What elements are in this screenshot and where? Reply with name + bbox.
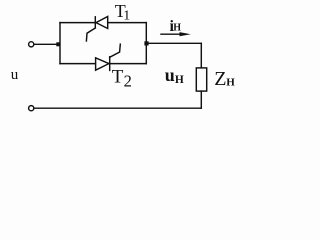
wire right vertical of pair [145, 23, 147, 64]
terminal (top input) [29, 42, 34, 47]
svg-text:ZH: ZH [214, 68, 235, 90]
label Z_H [214, 68, 235, 90]
thyristor T2 [96, 44, 121, 70]
wire right vertical to load [200, 43, 202, 68]
wire bottom rail [34, 107, 201, 109]
terminal (bottom input) [29, 106, 34, 111]
wire bottom branch left [60, 63, 96, 65]
impedance Z_H [196, 68, 206, 91]
label T2 [112, 67, 132, 91]
label i_H [170, 18, 182, 35]
node left junction [56, 42, 60, 46]
svg-text:u: u [11, 67, 19, 83]
svg-text:T1: T1 [115, 1, 130, 23]
svg-text:T2: T2 [112, 67, 132, 91]
node right junction [144, 41, 148, 45]
wire top branch right [108, 22, 147, 24]
svg-text:uH: uH [165, 65, 184, 86]
thyristor T1 [86, 17, 107, 42]
label u_H [165, 65, 184, 86]
wire below load [200, 91, 202, 108]
wire output top [146, 42, 201, 44]
wire left vertical [59, 23, 61, 64]
wire bottom branch right [110, 63, 147, 65]
wire top branch left [60, 22, 95, 24]
label u [11, 67, 19, 83]
wire input top [34, 43, 58, 45]
svg-text:iH: iH [170, 18, 182, 35]
current arrow i_H [161, 32, 191, 36]
label T1 [115, 1, 130, 23]
